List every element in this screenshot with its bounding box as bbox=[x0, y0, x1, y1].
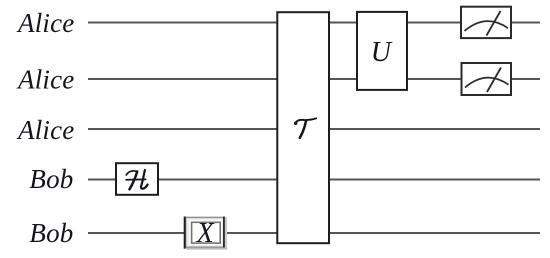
wire q4 (Bob bottom) bbox=[88, 232, 540, 234]
svg-text:X: X bbox=[196, 218, 215, 249]
svg-text:Bob: Bob bbox=[29, 218, 73, 248]
gate X on q4 (selected, 3D frame) bbox=[185, 217, 227, 250]
svg-text:Bob: Bob bbox=[29, 164, 73, 194]
wire q0 (Alice top) bbox=[88, 22, 540, 24]
wire q1 (Alice middle) bbox=[88, 78, 540, 80]
wire q3 (Bob top) bbox=[88, 179, 540, 181]
gate H on q3 bbox=[116, 163, 158, 195]
svg-text:U: U bbox=[371, 37, 393, 68]
svg-text:Alice: Alice bbox=[16, 8, 74, 38]
gate U on q0,q1 bbox=[357, 12, 407, 90]
wire q2 (Alice bottom) bbox=[88, 128, 540, 130]
svg-text:Alice: Alice bbox=[16, 115, 74, 145]
meter M1 on q1 bbox=[462, 63, 512, 95]
meter M0 on q0 bbox=[461, 7, 511, 38]
gate T (5-qubit box) bbox=[277, 12, 329, 243]
svg-text:Alice: Alice bbox=[16, 64, 74, 94]
